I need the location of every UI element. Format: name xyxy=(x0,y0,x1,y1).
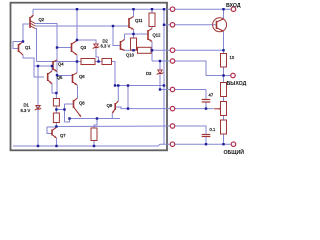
wire Q6 collector up xyxy=(76,62,78,74)
potentiometer R2 xyxy=(221,102,227,116)
wire divider tap xyxy=(55,107,57,127)
junction x128 bus85 xyxy=(127,84,129,86)
resistor R6 xyxy=(91,128,97,141)
junction C1 bottom xyxy=(205,107,207,109)
terminal pin 5 xyxy=(170,87,175,92)
wire Q5 collector up xyxy=(51,66,53,71)
junction Q11 emitter xyxy=(132,33,134,35)
label C1 value xyxy=(209,93,214,98)
junction x128 term6 xyxy=(127,107,129,109)
zener diode D2 xyxy=(93,44,99,49)
wire Q2 collector C down xyxy=(35,29,37,62)
wire R10 to output node xyxy=(223,67,225,76)
svg-text:Q12: Q12 xyxy=(153,33,162,38)
wire Q12 emitter down xyxy=(151,42,153,62)
capacitor C1 47uF xyxy=(202,100,211,103)
terminal pin 7 xyxy=(170,124,175,129)
label Q9 xyxy=(107,103,113,108)
junction tail left xyxy=(68,117,70,119)
wire C1 top lead xyxy=(205,90,207,100)
resistor R7 xyxy=(149,13,155,27)
junction terminal2 rail xyxy=(163,24,165,26)
terminal pin 6 xyxy=(170,106,175,111)
wire R4 top lead xyxy=(55,93,57,99)
wire input node xyxy=(175,8,232,10)
wire Q1 top node to Q2 base xyxy=(23,24,30,42)
wire output divider top xyxy=(223,76,225,83)
output terminal circle xyxy=(231,73,236,78)
resistor R5 xyxy=(53,113,59,123)
junction D3 bottom xyxy=(159,88,161,90)
wire Q1 base loop xyxy=(13,42,23,49)
transistor Q1 xyxy=(19,42,24,56)
label VYHOD output xyxy=(227,81,247,87)
junction D3 top xyxy=(159,60,161,62)
wire Q9 collector up xyxy=(117,86,119,102)
label D1 xyxy=(24,103,30,108)
capacitor C2 0.1uF xyxy=(202,135,211,137)
label Q12 xyxy=(153,33,162,38)
junction Q1 top node xyxy=(22,40,24,42)
svg-text:Q2: Q2 xyxy=(39,17,45,22)
label Q4 xyxy=(58,62,64,67)
label D2 xyxy=(103,39,109,44)
junction input collector xyxy=(222,8,224,10)
wire y85.5 bus xyxy=(115,85,164,87)
wire terminal7 to C2 xyxy=(175,126,206,135)
svg-text:6.3 V: 6.3 V xyxy=(21,108,31,113)
junction top rail right xyxy=(163,8,165,10)
wire Q9 emitter to tail xyxy=(111,113,113,118)
wire x128 vertical xyxy=(127,86,129,109)
junction Q12 node xyxy=(151,49,153,51)
svg-text:6.3 V: 6.3 V xyxy=(101,44,111,49)
wire R8 bottom node xyxy=(133,49,135,51)
label Q1 xyxy=(25,45,31,50)
label Q8 xyxy=(79,100,85,105)
junction ground D1 xyxy=(37,145,39,147)
resistor R4 xyxy=(53,99,59,107)
junction R4 top xyxy=(55,92,57,94)
svg-text:Q4: Q4 xyxy=(58,62,64,67)
wire Q10 emitter node row xyxy=(125,49,138,51)
junction ground Q7 xyxy=(55,145,57,147)
wire D3 branch xyxy=(159,61,161,70)
zener diode D1 xyxy=(35,106,41,111)
label Q10 xyxy=(126,53,135,58)
wire C1 bottom lead xyxy=(205,102,207,109)
svg-text:Q6: Q6 xyxy=(79,74,85,79)
junction C2 ground xyxy=(205,143,207,145)
wire R3 to ground rail xyxy=(223,134,225,144)
wire Q7 base loop xyxy=(47,127,56,134)
resistor R9 xyxy=(138,47,152,53)
wire C2 bottom lead xyxy=(205,137,207,145)
junction Q4 base D1 xyxy=(37,65,39,67)
label D1 value xyxy=(21,108,31,113)
input terminal circle xyxy=(231,7,236,12)
wire Q2 collector A to node xyxy=(35,24,57,61)
junction divider R4R5 xyxy=(55,108,57,110)
wire R1-R2 link xyxy=(223,97,225,102)
wire Q3 collector to D2 xyxy=(77,40,96,44)
svg-text:Q7: Q7 xyxy=(60,133,66,138)
wire top supply rail xyxy=(33,8,172,10)
transistor Q5 xyxy=(48,71,52,84)
wire Q2 emitter to top rail xyxy=(32,9,34,14)
wire D1 branch xyxy=(37,66,39,146)
wire D3 cathode to terminal5 xyxy=(160,75,206,90)
transistor Q8 xyxy=(74,98,82,117)
wire Q8 base xyxy=(65,103,74,105)
svg-text:Q3: Q3 xyxy=(81,45,87,50)
transistor Q4 xyxy=(53,60,57,72)
terminal pin 3 xyxy=(170,48,175,53)
wire Q11 collector to rail xyxy=(133,9,135,16)
wire Q4 base feed xyxy=(34,65,53,67)
label D2 value xyxy=(101,44,111,49)
svg-text:0.1: 0.1 xyxy=(210,127,216,132)
junction bus Q10 xyxy=(112,25,114,27)
wire Q11 emitter down xyxy=(133,30,135,39)
wire Q5 emitter down xyxy=(52,84,57,94)
junction Q6 base xyxy=(56,74,58,76)
wire node to terminal3 xyxy=(152,49,224,51)
junction R3 ground xyxy=(222,143,224,145)
resistor R1 divider xyxy=(221,83,227,97)
junction Q3 emitter bus xyxy=(76,60,78,62)
resistor R10 value 10 xyxy=(221,54,227,68)
junction R2h bus xyxy=(114,84,116,86)
label C2 value xyxy=(210,127,216,132)
junction Q3 base xyxy=(56,46,58,48)
wire D2 cathode down xyxy=(96,49,99,62)
transistor Q2 xyxy=(30,15,35,29)
junction D2 bus xyxy=(97,60,99,62)
label Q3 xyxy=(81,45,87,50)
transistor Q7 xyxy=(52,128,57,138)
wire Q6 base xyxy=(57,75,73,77)
wire Q4 collector emitter column xyxy=(56,60,58,93)
wire tail to R6 xyxy=(94,119,97,129)
svg-text:ОБЩИЙ: ОБЩИЙ xyxy=(224,148,245,156)
wire Q12 collector to R7 xyxy=(151,27,153,29)
resistor R3b xyxy=(102,59,112,65)
wire pass transistor collector xyxy=(223,9,225,19)
wire R2-R3 link xyxy=(223,116,225,121)
wire y34 bus Q10-Q12 xyxy=(125,33,149,35)
wire inner right rail x164 xyxy=(163,9,165,144)
svg-text:D1: D1 xyxy=(24,103,30,108)
terminal pin 4 xyxy=(170,59,175,64)
transistor Q12 xyxy=(148,29,152,42)
label Q5 xyxy=(57,75,63,80)
junction Q9 collector bus xyxy=(117,84,119,86)
transistor Q9 xyxy=(112,101,118,113)
svg-text:Q11: Q11 xyxy=(135,18,143,23)
wire Q10 base feed xyxy=(113,26,121,46)
label Q2 xyxy=(39,17,45,22)
wire R6 to ground xyxy=(93,141,95,147)
wire Q2 collector B bus to Q11 base xyxy=(35,25,129,27)
common terminal circle xyxy=(231,142,236,147)
transistor Q6 xyxy=(73,73,78,85)
label D3 xyxy=(146,71,152,76)
wire Q3 base xyxy=(57,47,72,49)
wire tail to divider node xyxy=(65,119,70,123)
IC package boundary frame xyxy=(11,3,168,151)
wire Q1 emitter down xyxy=(23,55,44,77)
wire terminal4 feed xyxy=(152,61,224,76)
junction Q3 collector node xyxy=(76,39,78,41)
wire Q6 emitter down xyxy=(76,85,79,98)
junction rail x77 xyxy=(76,8,78,10)
wire Q3 collector node xyxy=(76,9,78,40)
resistor R3a xyxy=(81,59,95,65)
wire terminal7 feed xyxy=(56,125,172,128)
junction R8 bottom xyxy=(132,49,134,51)
wire R7 top to rail xyxy=(151,9,153,13)
wire tap branch xyxy=(56,109,64,111)
wire tail rail xyxy=(70,118,121,120)
junction emitter terminal3 xyxy=(222,49,224,51)
svg-text:Q8: Q8 xyxy=(79,100,85,105)
junction R5 bottom node xyxy=(55,125,57,127)
terminal pin 2 xyxy=(170,23,175,28)
svg-text:Q9: Q9 xyxy=(107,103,113,108)
junction ground R6 xyxy=(93,145,95,147)
svg-text:Q1: Q1 xyxy=(25,45,31,50)
wire Q3 emitter down xyxy=(76,55,78,62)
pass transistor Q13 xyxy=(217,19,224,31)
junction tail mid xyxy=(96,117,98,119)
wire mid bus y61.5 xyxy=(37,61,116,63)
label OBSHCHIY common xyxy=(224,148,245,156)
junction top rail R7 xyxy=(151,8,153,10)
zener diode D3 xyxy=(157,70,163,75)
svg-text:D3: D3 xyxy=(146,71,152,76)
label Q11 xyxy=(135,18,143,23)
wire ground rail internal xyxy=(13,144,232,146)
junction Q5 collector xyxy=(51,65,53,67)
wire Q7 emitter to ground rail xyxy=(56,138,58,146)
terminal pin 8 xyxy=(170,142,175,147)
wire wiper feed xyxy=(175,108,214,110)
label R10 value xyxy=(230,55,235,60)
junction rail x164 bus85 xyxy=(163,84,165,86)
svg-text:ВХОД: ВХОД xyxy=(226,3,241,9)
wire pass transistor emitter xyxy=(223,31,225,53)
wire Q10 collector up xyxy=(124,34,126,40)
potentiometer wiper arrow xyxy=(214,108,221,110)
label Q7 xyxy=(60,133,66,138)
wire x64 vertical xyxy=(64,104,66,122)
transistor Q11 xyxy=(129,17,134,30)
svg-text:47: 47 xyxy=(209,93,214,98)
wire output node to terminal xyxy=(224,75,232,77)
terminal pin 1 xyxy=(170,7,175,12)
transistor Q3 xyxy=(72,41,78,56)
resistor R3 divider xyxy=(221,120,227,134)
resistor R8 xyxy=(131,38,137,50)
wire terminal6 feed Q9 base xyxy=(116,107,172,109)
transistor Q10 xyxy=(121,40,125,51)
svg-text:10: 10 xyxy=(230,55,235,60)
pass transistor Q13 circle xyxy=(213,18,227,32)
junction output node xyxy=(222,74,224,76)
svg-text:Q10: Q10 xyxy=(126,53,135,58)
wire R2h down x115 xyxy=(112,62,116,86)
wire terminal2 feed xyxy=(164,24,217,26)
svg-text:ВЫХОД: ВЫХОД xyxy=(227,81,247,87)
label Q6 xyxy=(79,74,85,79)
junction top rail Q11 xyxy=(132,8,134,10)
junction tap right xyxy=(63,108,65,110)
label VHOD input xyxy=(226,3,241,9)
